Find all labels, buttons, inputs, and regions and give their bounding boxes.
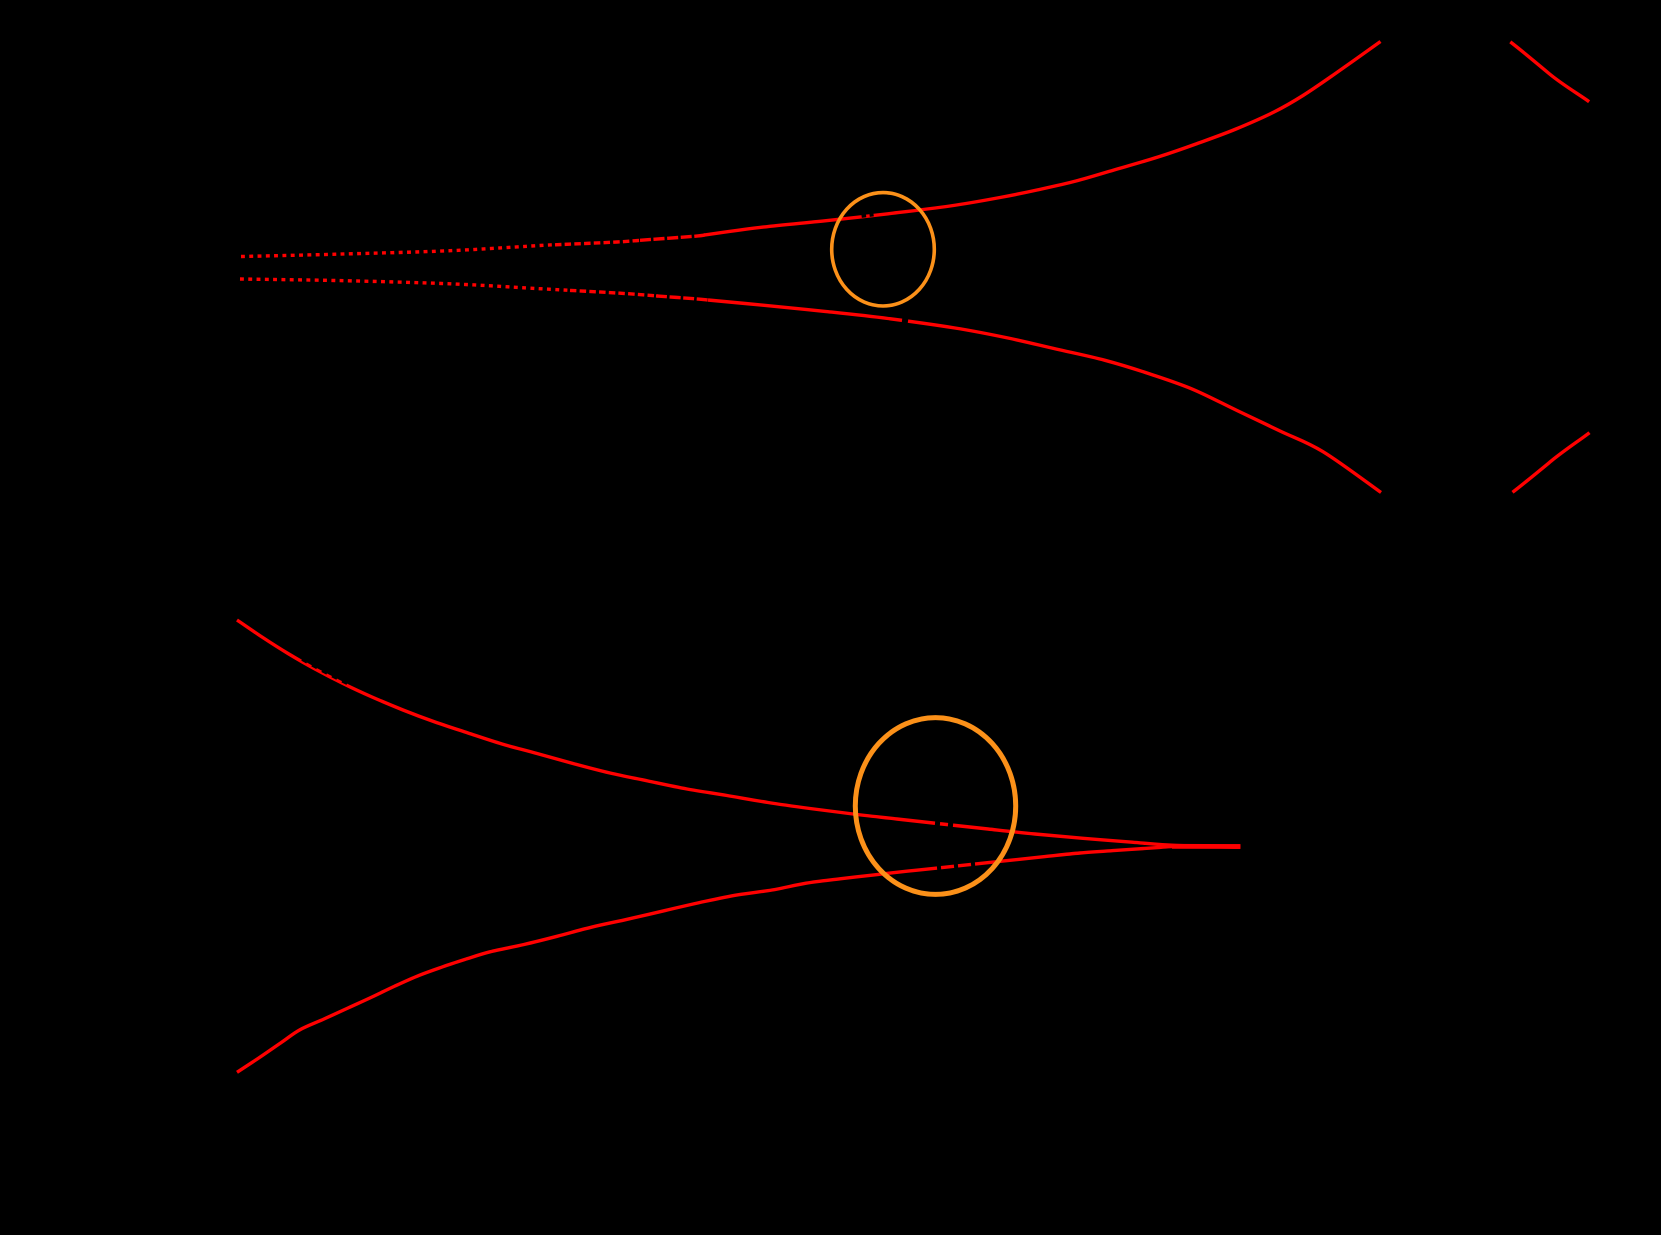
top panel: upper beam envelope, long-dash transition: [640, 235, 706, 241]
bottom panel: merged beam tail after focus: [1172, 844, 1241, 849]
bottom panel: upper converging beam edge: [237, 620, 1240, 847]
moire gap artifacts on bottom upper curve inside focus circle: [935, 821, 940, 827]
top panel: lower beam envelope, solid part: [708, 300, 1381, 493]
moire gap artifacts on bottom lower curve inside focus circle: [937, 865, 941, 870]
moire gap artifact on top lower line right of waist circle: [902, 318, 908, 324]
top panel: lower beam envelope, short-dash transition: [570, 290, 658, 296]
top panel: refracted upper ray after lens, clipped at axes top and right: [1510, 42, 1589, 102]
top panel: lower beam envelope, dotted virtual part: [240, 279, 572, 291]
bottom panel: lower converging beam edge: [237, 846, 1240, 1072]
moire gap artifacts on bottom upper curve left region: [303, 658, 308, 661]
top panel: upper beam envelope, dotted virtual part: [241, 245, 557, 257]
top panel: upper beam envelope, solid part: [704, 42, 1381, 236]
moire gap artifacts on top upper line inside waist circle: [862, 212, 867, 218]
top panel: lower beam envelope, long-dash transition: [656, 296, 710, 300]
top panel: refracted lower ray after lens, clipped at axes bottom and right: [1513, 433, 1590, 493]
top panel: upper beam envelope, short-dash transition: [555, 240, 642, 245]
top panel: orange waist highlight circle: [832, 193, 935, 306]
bottom panel: orange focus highlight circle: [855, 718, 1015, 895]
